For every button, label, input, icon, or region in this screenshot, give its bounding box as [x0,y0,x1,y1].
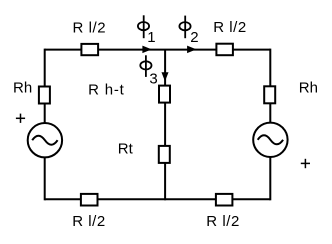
resistor R l/2 bottom-left [72,194,106,230]
arrow phi2 (current direction on top-right wire) [188,46,195,52]
svg-text:R h-t: R h-t [88,81,125,98]
svg-text:R l/2: R l/2 [72,213,106,230]
resistor Rh right [264,80,318,104]
wire bottom rail [45,198,271,200]
source V2 (right AC source) [253,123,287,157]
svg-text:R l/2: R l/2 [213,19,247,36]
svg-text:Rh: Rh [299,80,318,97]
label + (right source polarity) [301,159,310,168]
resistor R l/2 top-left [73,20,107,56]
svg-text:Rh: Rh [13,80,32,97]
svg-text:R l/2: R l/2 [73,20,107,37]
label + (left source polarity) [16,114,25,123]
resistor Rt (middle bottom) [118,141,170,163]
svg-text:R l/2: R l/2 [206,213,240,230]
svg-text:3: 3 [149,70,157,87]
resistor R h-t (middle top) [88,81,170,102]
label phi2 [179,16,198,47]
label phi3 [140,55,157,87]
svg-text:Rt: Rt [118,141,134,158]
label phi1 [138,15,156,46]
resistor R l/2 bottom-right [206,194,240,230]
wire middle branch [164,50,166,201]
wire right branch [269,49,271,123]
arrow phi1 (current direction on top-left wire) [143,46,150,52]
resistor Rh left [13,80,50,104]
wire top rail [45,49,271,51]
svg-text:1: 1 [147,29,155,46]
wire left branch [44,49,46,123]
svg-text:2: 2 [190,29,198,46]
source V1 (left AC source) [28,123,62,157]
arrow phi3 (current direction on middle branch) [162,73,168,80]
resistor R l/2 top-right [213,19,247,55]
